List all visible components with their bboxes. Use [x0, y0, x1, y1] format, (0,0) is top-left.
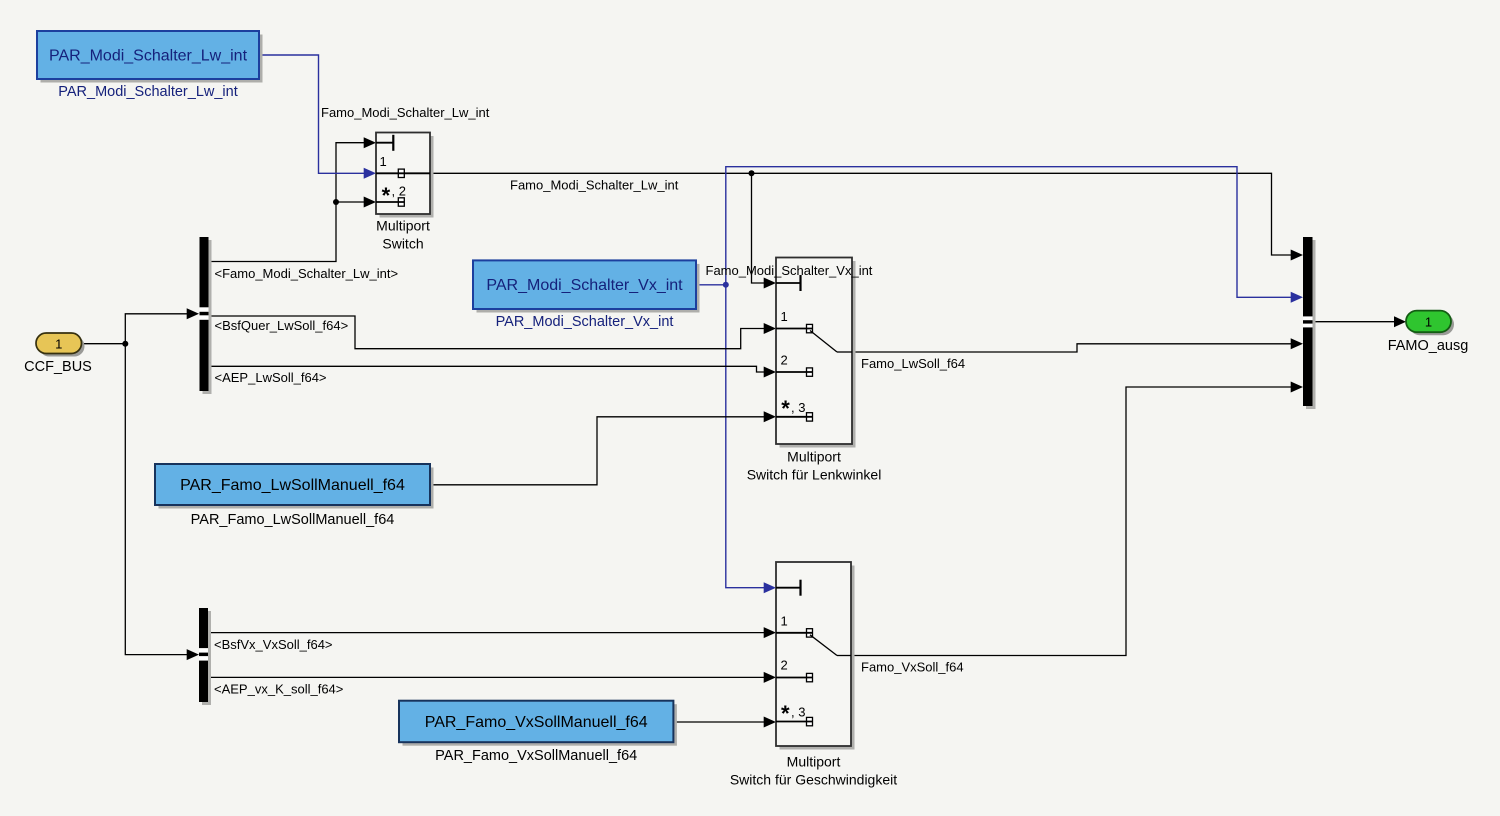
- svg-text:1: 1: [380, 154, 387, 169]
- svg-text:Multiport: Multiport: [787, 754, 841, 770]
- svg-text:<Famo_Modi_Schalter_Lw_int>: <Famo_Modi_Schalter_Lw_int>: [215, 266, 399, 281]
- wire PAR_Modi_Schalter_Vx_int net (blue) to bus creator and Geschwindigkeit control: [696, 167, 1292, 588]
- junction on Famo_Modi_Schalter_Lw_int branch: [333, 199, 339, 205]
- svg-text:Switch für Geschwindigkeit: Switch für Geschwindigkeit: [730, 772, 897, 788]
- constant block PAR_Modi_Schalter_Vx_int: [473, 260, 700, 312]
- wire PAR_Famo_LwSollManuell_f64 to Lenkwinkel input 3: [430, 417, 765, 485]
- multiport switch U1 (top): [376, 133, 434, 218]
- svg-text:1: 1: [1425, 314, 1432, 329]
- svg-text:1: 1: [55, 336, 62, 351]
- svg-text:PAR_Famo_LwSollManuell_f64: PAR_Famo_LwSollManuell_f64: [180, 477, 405, 494]
- constant block PAR_Modi_Schalter_Lw_int: [37, 31, 263, 83]
- svg-text:Famo_Modi_Schalter_Vx_int: Famo_Modi_Schalter_Vx_int: [706, 263, 873, 278]
- bus selector 1: [200, 237, 212, 394]
- svg-text:Multiport: Multiport: [787, 449, 841, 465]
- junction on Famo_Modi_Schalter_Lw_int line: [749, 170, 755, 176]
- svg-text:Famo_Modi_Schalter_Lw_int: Famo_Modi_Schalter_Lw_int: [510, 178, 679, 193]
- svg-text:<AEP_LwSoll_f64>: <AEP_LwSoll_f64>: [215, 370, 327, 385]
- svg-text:, 3: , 3: [791, 400, 805, 415]
- wire Famo_LwSoll_f64 from Lenkwinkel output to bus creator: [837, 344, 1292, 352]
- bus selector 2: [199, 608, 211, 705]
- svg-text:Multiport: Multiport: [376, 218, 430, 234]
- svg-text:Switch für Lenkwinkel: Switch für Lenkwinkel: [747, 467, 882, 483]
- wire PAR_Famo_VxSollManuell_f64 to Geschwindigkeit input 3: [673, 721, 765, 723]
- svg-text:Switch: Switch: [382, 236, 423, 252]
- wire BsfVx_VxSoll_f64 to Geschwindigkeit input 1: [209, 632, 766, 634]
- svg-text:<AEP_vx_K_soll_f64>: <AEP_vx_K_soll_f64>: [214, 682, 343, 697]
- svg-text:PAR_Famo_LwSollManuell_f64: PAR_Famo_LwSollManuell_f64: [191, 512, 395, 528]
- wire from bus selector 1 output Famo_Modi_Schalter_Lw_int to Multiport Switch inputs: [209, 143, 366, 262]
- wire BsfQuer_LwSoll_f64 to Lenkwinkel input 1: [209, 316, 766, 349]
- constant block PAR_Famo_VxSollManuell_f64: [399, 701, 677, 746]
- svg-text:2: 2: [781, 353, 788, 368]
- wire CCF_BUS net from inport to bus selectors: [82, 314, 189, 655]
- svg-text:<BsfQuer_LwSoll_f64>: <BsfQuer_LwSoll_f64>: [215, 318, 349, 333]
- svg-text:PAR_Modi_Schalter_Vx_int: PAR_Modi_Schalter_Vx_int: [486, 277, 683, 294]
- wire PAR_Modi_Schalter_Lw_int output (blue): [259, 55, 365, 173]
- junction at CCF_BUS branch: [122, 341, 128, 347]
- outport 1 FAMO_ausg: [1406, 311, 1454, 336]
- svg-text:PAR_Modi_Schalter_Vx_int: PAR_Modi_Schalter_Vx_int: [496, 314, 674, 330]
- svg-text:Famo_Modi_Schalter_Lw_int: Famo_Modi_Schalter_Lw_int: [321, 105, 490, 120]
- svg-text:1: 1: [781, 614, 788, 629]
- svg-text:Famo_VxSoll_f64: Famo_VxSoll_f64: [861, 660, 964, 675]
- svg-text:, 2: , 2: [392, 184, 406, 199]
- svg-text:FAMO_ausg: FAMO_ausg: [1388, 338, 1469, 354]
- multiport switch U3 Geschwindigkeit: [776, 562, 855, 750]
- svg-text:Famo_LwSoll_f64: Famo_LwSoll_f64: [861, 356, 965, 371]
- svg-text:PAR_Famo_VxSollManuell_f64: PAR_Famo_VxSollManuell_f64: [425, 714, 648, 731]
- wire AEP_LwSoll_f64 to Lenkwinkel input 2: [209, 366, 766, 372]
- inport 1 CCF_BUS: [36, 333, 85, 357]
- wire Famo_Modi_Schalter_Lw_int from Multiport Switch output to bus creator and Lenkwinkel control: [430, 173, 1292, 283]
- wire Famo_VxSoll_f64 from Geschwindigkeit output to bus creator: [837, 387, 1292, 656]
- svg-text:2: 2: [781, 658, 788, 673]
- svg-text:PAR_Modi_Schalter_Lw_int: PAR_Modi_Schalter_Lw_int: [58, 84, 237, 100]
- svg-text:*: *: [382, 183, 391, 208]
- svg-text:<BsfVx_VxSoll_f64>: <BsfVx_VxSoll_f64>: [214, 637, 333, 652]
- bus creator: [1303, 237, 1316, 409]
- svg-text:PAR_Famo_VxSollManuell_f64: PAR_Famo_VxSollManuell_f64: [435, 748, 637, 764]
- svg-text:, 3: , 3: [791, 705, 805, 720]
- multiport switch U2 Lenkwinkel: [776, 258, 856, 448]
- wire AEP_vx_K_soll_f64 to Geschwindigkeit input 2: [209, 676, 766, 678]
- constant block PAR_Famo_LwSollManuell_f64: [155, 464, 434, 509]
- svg-text:1: 1: [781, 309, 788, 324]
- svg-text:PAR_Modi_Schalter_Lw_int: PAR_Modi_Schalter_Lw_int: [49, 48, 248, 65]
- junction on blue net: [723, 282, 729, 288]
- wire bus creator output to outport FAMO_ausg: [1313, 321, 1395, 323]
- svg-text:CCF_BUS: CCF_BUS: [24, 359, 92, 375]
